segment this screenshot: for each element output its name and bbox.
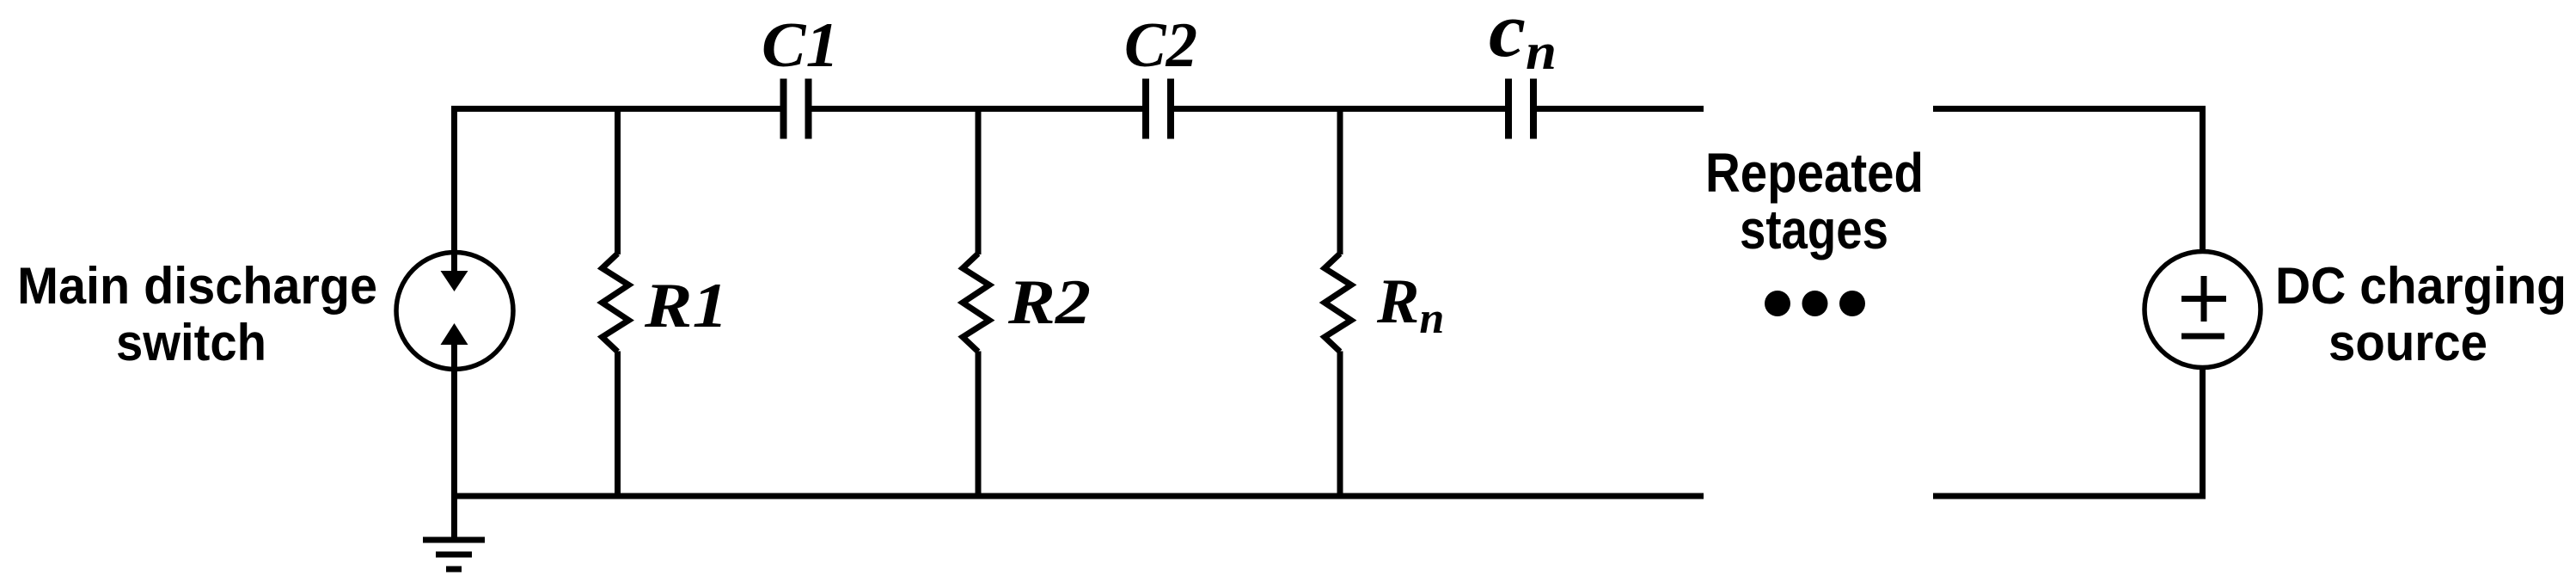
svg-text:switch: switch <box>116 314 266 371</box>
svg-text:source: source <box>2328 314 2487 371</box>
svg-text:C2: C2 <box>1124 10 1197 81</box>
svg-text:C1: C1 <box>762 10 839 81</box>
svg-text:R1: R1 <box>644 271 728 341</box>
svg-text:R2: R2 <box>1007 267 1091 338</box>
svg-text:stages: stages <box>1740 199 1888 260</box>
svg-text:DC charging: DC charging <box>2275 257 2567 315</box>
svg-text:Repeated: Repeated <box>1705 142 1924 204</box>
svg-text:Main discharge: Main discharge <box>17 257 377 315</box>
